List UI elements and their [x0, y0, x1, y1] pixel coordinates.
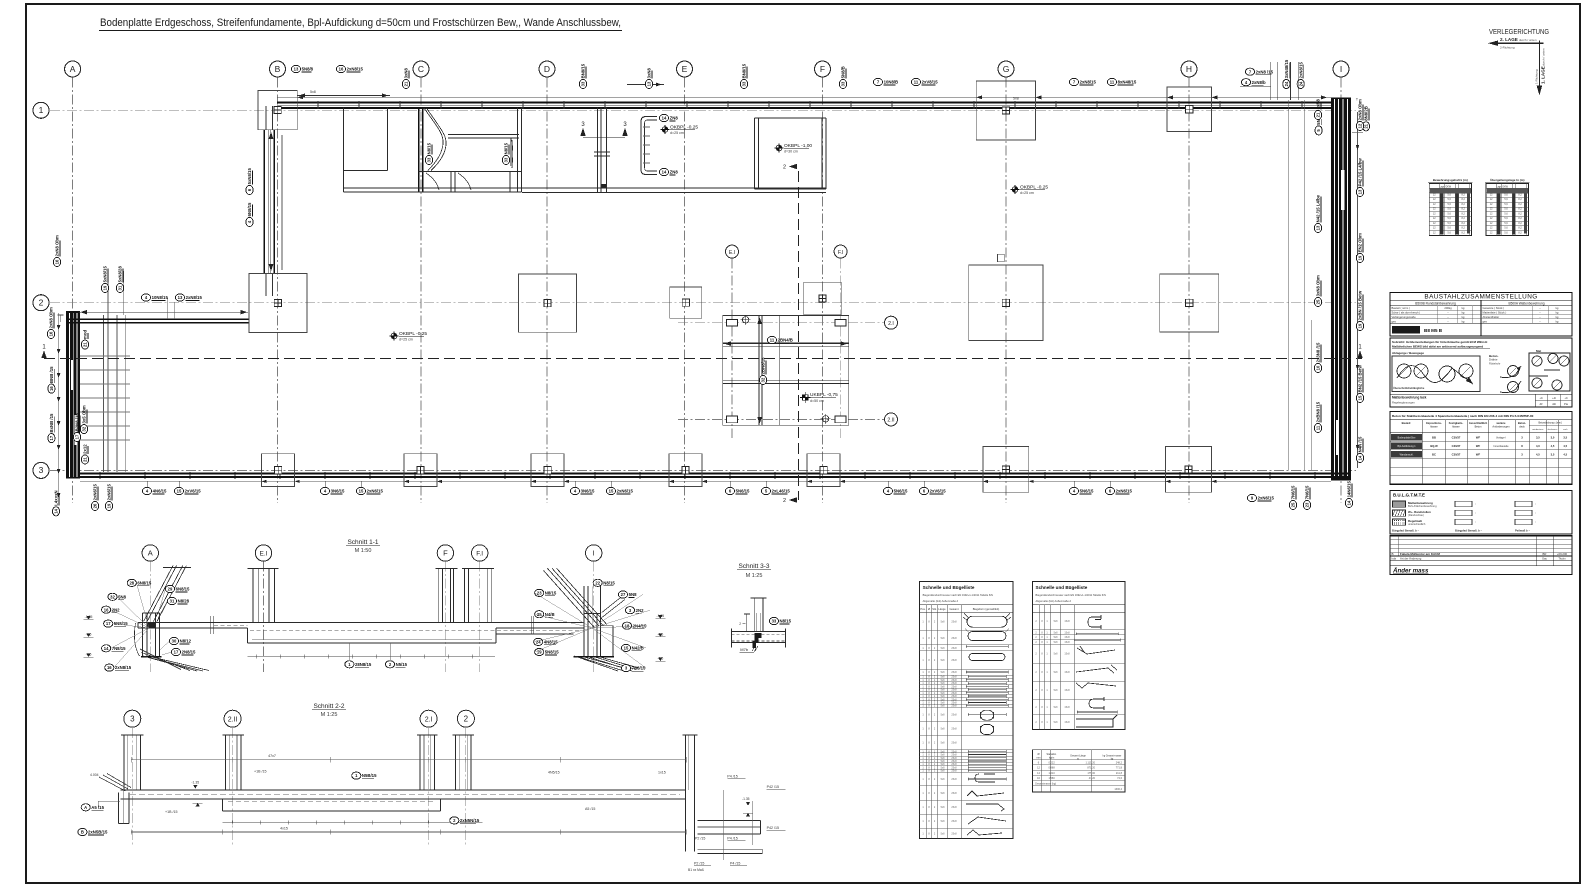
svg-text:31: 31	[118, 285, 123, 290]
svg-text:23: 23	[1305, 502, 1310, 507]
svg-text:Bauteil ( norm ): Bauteil ( norm )	[1392, 306, 1410, 310]
svg-text:+1B /15: +1B /15	[165, 810, 178, 814]
svg-text:UKBPL -0,75: UKBPL -0,75	[810, 392, 838, 398]
svg-text:unterschiedlich: unterschiedlich	[1408, 522, 1426, 526]
svg-text::: :	[1475, 511, 1476, 515]
svg-text:Ø: Ø	[1037, 752, 1039, 756]
svg-text:3,0: 3,0	[1551, 435, 1555, 439]
svg-text:2xL46/15: 2xL46/15	[772, 489, 791, 494]
svg-text:25: 25	[1316, 299, 1321, 304]
svg-text:2-Richtung: 2-Richtung	[1500, 45, 1515, 49]
svg-text:OKBPL -0,25: OKBPL -0,25	[1020, 184, 1048, 190]
svg-text:3,5: 3,5	[1563, 435, 1567, 439]
svg-text:2.I: 2.I	[888, 321, 894, 327]
svg-text:2BN8/15: 2BN8/15	[761, 357, 766, 375]
svg-text:Lage OKW: Lage OKW	[1439, 185, 1451, 188]
svg-text:15x8: 15x8	[1064, 641, 1070, 644]
svg-text:3: 3	[39, 465, 44, 475]
svg-text:durch / unten: durch / unten	[1519, 38, 1537, 42]
svg-text:kg/m: kg/m	[1049, 757, 1054, 760]
svg-text:Ausschließlich: Ausschließlich	[1469, 421, 1488, 425]
svg-text:5x8: 5x8	[941, 671, 946, 674]
svg-text:1306,4: 1306,4	[1114, 788, 1122, 791]
svg-text:25x8: 25x8	[951, 621, 957, 624]
svg-text:Bpl-Aufdickung 1: Bpl-Aufdickung 1	[1397, 445, 1416, 448]
svg-text:mm: mm	[1037, 757, 1041, 760]
svg-text:2N2: 2N2	[636, 608, 644, 613]
svg-text:Mattenbewehrung lack: Mattenbewehrung lack	[1392, 396, 1427, 400]
svg-text:14: 14	[104, 646, 109, 651]
svg-text:Bürgpfad Bemaß. b ~: Bürgpfad Bemaß. b ~	[1455, 528, 1483, 532]
svg-text:Beton-: Beton-	[1518, 421, 1526, 425]
svg-text:21: 21	[83, 342, 88, 347]
svg-text:kg: kg	[1462, 319, 1465, 323]
svg-text:BB: BB	[1432, 435, 1436, 439]
svg-text:BLS-/Flächenbewehrung: BLS-/Flächenbewehrung	[1408, 504, 1437, 508]
svg-text:14: 14	[54, 508, 59, 513]
svg-text:M 1:50: M 1:50	[355, 548, 372, 554]
svg-text:2xV6/15: 2xV6/15	[185, 489, 202, 494]
svg-text:25x8: 25x8	[951, 671, 957, 674]
svg-text:A: A	[148, 549, 153, 558]
svg-text:15: 15	[359, 489, 364, 494]
svg-text:5x8: 5x8	[941, 832, 946, 835]
svg-text:17: 17	[174, 650, 179, 655]
svg-text:2.II: 2.II	[887, 418, 894, 424]
svg-text:I: I	[1340, 64, 1342, 74]
svg-text:17: 17	[49, 435, 54, 440]
svg-text:13: 13	[1316, 225, 1321, 230]
svg-text:6N8/15: 6N8/15	[247, 202, 252, 216]
svg-text:Innenbauteile: Innenbauteile	[1493, 445, 1509, 448]
svg-text:5x8: 5x8	[1054, 653, 1059, 656]
svg-text:25x8: 25x8	[951, 770, 957, 773]
svg-text:klasse: klasse	[1452, 424, 1460, 428]
svg-text:P2 /15: P2 /15	[695, 836, 705, 840]
svg-text:25x8: 25x8	[951, 742, 957, 745]
svg-text:BN2 /15 Betw: BN2 /15 Betw	[1358, 365, 1363, 393]
svg-text:Stk.: Stk.	[932, 607, 937, 611]
svg-text:BQ,W: BQ,W	[1430, 444, 1438, 448]
svg-text:14N6/15: 14N6/15	[1347, 481, 1352, 498]
svg-text:Beton: Beton	[1475, 424, 1482, 428]
svg-text:13: 13	[647, 81, 652, 86]
svg-text:0,888: 0,888	[1048, 767, 1055, 770]
svg-text:kg: kg	[1556, 311, 1559, 315]
svg-text:d=30 cm: d=30 cm	[784, 150, 798, 154]
svg-text:OKBPL -1,00: OKBPL -1,00	[784, 143, 812, 149]
svg-text:7N6/15: 7N6/15	[1305, 485, 1310, 499]
svg-text::: :	[1535, 511, 1536, 515]
svg-text:32: 32	[761, 377, 766, 382]
svg-text:+1B /15: +1B /15	[254, 770, 267, 774]
svg-text:4,5: 4,5	[1536, 453, 1540, 457]
svg-text:2xN8/b: 2xN8/b	[1252, 80, 1266, 85]
svg-text:10N8/B: 10N8/B	[884, 80, 899, 85]
svg-text:2xN8/15: 2xN8/15	[1298, 62, 1303, 79]
svg-text:Biegeform (gemalt/fett): Biegeform (gemalt/fett)	[973, 607, 1000, 611]
svg-text:M7b: M7b	[740, 647, 749, 652]
svg-text:16: 16	[49, 331, 54, 336]
svg-text:2: 2	[739, 622, 741, 626]
svg-text:5N8/8: 5N8/8	[302, 67, 314, 72]
svg-text:P42 /15 L4/bw: P42 /15 L4/bw	[1358, 158, 1363, 187]
svg-text:2xBN /15 Betw: 2xBN /15 Betw	[1358, 290, 1363, 320]
svg-text:Wandanschl.: Wandanschl.	[1400, 454, 1414, 457]
svg-text:2xV6/15: 2xV6/15	[930, 489, 947, 494]
svg-text:F: F	[443, 549, 448, 558]
svg-text:3xN8: 3xN8	[647, 68, 652, 79]
svg-text:P42 /15: P42 /15	[767, 826, 779, 830]
svg-text:24: 24	[1284, 81, 1289, 86]
svg-text:3N6/15: 3N6/15	[331, 489, 345, 494]
svg-text:N8/15: N8/15	[545, 591, 557, 596]
svg-text:16: 16	[104, 607, 109, 612]
svg-text:29: 29	[168, 587, 173, 592]
svg-text:kg: kg	[1462, 311, 1465, 315]
svg-text:8N8/2B: 8N8/2B	[1364, 106, 1369, 121]
svg-text:durch / unten: durch / unten	[1542, 48, 1546, 66]
svg-text:5N8/15: 5N8/15	[545, 650, 559, 655]
svg-text:1: 1	[39, 105, 44, 115]
svg-text:Übergehungslage In (m): Übergehungslage In (m)	[1490, 177, 1524, 182]
svg-text:C: C	[418, 64, 424, 74]
svg-text:5N8/B: 5N8/B	[841, 66, 846, 78]
svg-text:2xN5B/15: 2xN5B/15	[88, 830, 108, 835]
svg-text:14: 14	[662, 116, 667, 121]
svg-text:5xN8/15: 5xN8/15	[247, 168, 252, 185]
svg-text:5x8: 5x8	[1054, 721, 1059, 724]
svg-text:EN2 Obm: EN2 Obm	[1358, 233, 1363, 253]
svg-text:0,222: 0,222	[1048, 761, 1055, 764]
svg-text::: :	[1535, 520, 1536, 524]
svg-text:5N6/15: 5N6/15	[736, 489, 750, 494]
svg-text:15x8: 15x8	[1064, 689, 1070, 692]
svg-text:1x15: 1x15	[658, 771, 666, 775]
svg-text:deck: deck	[1519, 424, 1525, 428]
svg-text:(Randverbau): (Randverbau)	[1408, 513, 1424, 517]
svg-text:mod: mod	[83, 330, 88, 339]
svg-text:Änder mass: Änder mass	[1392, 568, 1429, 575]
svg-text:WF: WF	[1476, 444, 1481, 448]
svg-text:2xN8/15: 2xN8/15	[186, 295, 203, 300]
svg-text:Betondeckung c [mm]: Betondeckung c [mm]	[1538, 421, 1561, 424]
svg-text:5x8: 5x8	[941, 713, 946, 716]
svg-text:19: 19	[537, 650, 542, 655]
svg-text:P2 /15: P2 /15	[694, 862, 704, 866]
svg-text:33: 33	[742, 81, 747, 86]
svg-text:F: F	[820, 64, 825, 74]
svg-text:2. LAGE: 2. LAGE	[1500, 37, 1518, 42]
svg-text:2.II: 2.II	[228, 716, 238, 723]
svg-text:N42 /15 L4/be: N42 /15 L4/be	[1316, 194, 1321, 222]
svg-text::: :	[1475, 520, 1476, 524]
svg-text:16: 16	[107, 665, 112, 670]
svg-text:5x8: 5x8	[310, 90, 316, 94]
svg-text:15x8: 15x8	[1064, 636, 1070, 639]
svg-text:Abstandhalter: Abstandhalter	[1483, 315, 1500, 319]
svg-text:5x8: 5x8	[941, 728, 946, 731]
svg-text:5N6/15: 5N6/15	[1080, 489, 1094, 494]
svg-text:N8/15: N8/15	[780, 619, 792, 624]
svg-text:WF: WF	[1476, 453, 1481, 457]
svg-text:175,00: 175,00	[1087, 772, 1095, 775]
svg-text:mindestens: mindestens	[1532, 428, 1544, 431]
svg-text:klasse: klasse	[1430, 424, 1438, 428]
svg-text:N5B/15: N5B/15	[362, 773, 377, 778]
svg-text:25: 25	[1291, 502, 1296, 507]
svg-text:1. LAGE: 1. LAGE	[1541, 66, 1546, 84]
svg-text:2xN6/15: 2xN6/15	[367, 489, 384, 494]
svg-text:Schar ( als dorn-besch ): Schar ( als dorn-besch )	[1392, 311, 1421, 315]
svg-text:5x8: 5x8	[1054, 689, 1059, 692]
svg-text:15: 15	[177, 489, 182, 494]
svg-text:13: 13	[178, 295, 183, 300]
svg-text:A: A	[84, 805, 87, 810]
svg-text:2x12: 2x12	[83, 444, 88, 454]
svg-text::: :	[1475, 502, 1476, 506]
svg-text:Tkulm: Tkulm	[1558, 557, 1566, 561]
svg-text:4N8/15: 4N8/15	[544, 640, 558, 645]
svg-text:5N8/15: 5N8/15	[114, 621, 128, 626]
svg-text:15x8: 15x8	[1064, 706, 1070, 709]
svg-text:25: 25	[537, 612, 542, 617]
svg-text:11: 11	[1110, 80, 1115, 85]
svg-text:M 1:25: M 1:25	[321, 712, 338, 718]
svg-text:G: G	[1003, 64, 1010, 74]
svg-text:18: 18	[625, 623, 630, 628]
svg-text:Bodenplatte/Stre: Bodenplatte/Stre	[1398, 436, 1416, 439]
svg-text:2: 2	[464, 714, 469, 723]
svg-text:5xN8/15: 5xN8/15	[103, 266, 108, 283]
svg-text:Abgemalte (fett) Außenmaße d: Abgemalte (fett) Außenmaße d	[1036, 599, 1072, 603]
svg-text:1,210: 1,210	[1048, 772, 1055, 775]
svg-text:6N8/15: 6N8/15	[137, 581, 151, 586]
svg-text:15x8: 15x8	[1064, 631, 1070, 634]
svg-text:B500B Rundstahlbewehrung: B500B Rundstahlbewehrung	[1415, 301, 1456, 305]
svg-text::: :	[1535, 502, 1536, 506]
svg-text:5x8: 5x8	[941, 637, 946, 640]
svg-text:Festigkeits-: Festigkeits-	[1449, 421, 1464, 425]
svg-text:1.115,20: 1.115,20	[1085, 761, 1095, 764]
svg-text:Mattenliste ( Stück ): Mattenliste ( Stück )	[1483, 311, 1507, 315]
svg-text:Sobricht: Größenverteilungen f: Sobricht: Größenverteilungen für Unterbr…	[1392, 340, 1487, 344]
svg-text:Regelergänzungen: Regelergänzungen	[1392, 401, 1415, 405]
svg-text:26: 26	[93, 503, 98, 508]
svg-text:N8/15: N8/15	[504, 142, 509, 154]
svg-text:B8 M5 B: B8 M5 B	[1424, 328, 1443, 333]
svg-text:27: 27	[621, 592, 626, 597]
svg-text:15: 15	[624, 646, 629, 651]
svg-text:19: 19	[103, 285, 108, 290]
svg-text:5x8: 5x8	[941, 806, 946, 809]
svg-text:3xN48/15: 3xN48/15	[1284, 59, 1289, 78]
svg-text:15x8: 15x8	[1064, 620, 1070, 623]
svg-text:21: 21	[1316, 112, 1321, 117]
svg-text:C30/37: C30/37	[1452, 444, 1461, 448]
svg-text:+09.200: +09.200	[1557, 552, 1568, 556]
svg-text:kg: kg	[1556, 306, 1559, 310]
svg-text:25x8: 25x8	[951, 659, 957, 662]
svg-text:2xN8 Obm: 2xN8 Obm	[1358, 99, 1363, 120]
svg-text:Biegerollendurchmesser nach EN: Biegerollendurchmesser nach EN 1992+1-1/…	[923, 593, 993, 597]
svg-text:11: 11	[914, 80, 919, 85]
svg-text:11: 11	[1316, 425, 1321, 430]
svg-text:-1.35: -1.35	[191, 781, 199, 785]
svg-text:25x8: 25x8	[951, 637, 957, 640]
svg-text:F.I: F.I	[476, 551, 483, 558]
svg-text:+di: +di	[1552, 396, 1556, 400]
svg-text:25x8: 25x8	[951, 792, 957, 795]
svg-text:dif: dif	[1540, 402, 1543, 406]
svg-text:deckmass: deckmass	[1548, 429, 1559, 431]
svg-text:2xN8/15: 2xN8/15	[1080, 80, 1097, 85]
svg-text:B: B	[81, 830, 84, 835]
svg-text:3,5: 3,5	[1551, 453, 1555, 457]
svg-text:24: 24	[1298, 81, 1303, 86]
svg-text:5N6/15: 5N6/15	[894, 489, 908, 494]
svg-text:kg: kg	[1556, 319, 1559, 323]
svg-text:4,0: 4,0	[1536, 444, 1540, 448]
svg-text:15: 15	[1358, 395, 1363, 400]
svg-text:871,20: 871,20	[1087, 767, 1095, 770]
svg-text:Anforderungen: Anforderungen	[1492, 424, 1510, 428]
svg-text:31: 31	[170, 599, 175, 604]
svg-text:5x8: 5x8	[941, 742, 946, 745]
svg-text:Gesamt: Gesamt	[949, 607, 958, 611]
svg-text:B2N8 /15: B2N8 /15	[75, 413, 80, 432]
svg-text:21: 21	[1364, 123, 1369, 128]
svg-text:2xN5N/15: 2xN5N/15	[460, 818, 480, 823]
svg-text:E.I: E.I	[260, 551, 268, 558]
svg-text:33: 33	[504, 157, 509, 162]
svg-text:BN8/15: BN8/15	[581, 63, 586, 78]
svg-text:4N6/15: 4N6/15	[153, 489, 167, 494]
svg-text:Bürgpfad Bemaß. b ~: Bürgpfad Bemaß. b ~	[1392, 528, 1420, 532]
svg-text:N5/15: N5/15	[396, 662, 408, 667]
svg-text:2xN6/15: 2xN6/15	[617, 489, 634, 494]
svg-text:N4N /15: N4N /15	[1358, 436, 1363, 452]
svg-text:25x8: 25x8	[951, 705, 957, 708]
svg-text:H: H	[1186, 64, 1192, 74]
svg-text:11: 11	[770, 338, 775, 343]
svg-text:33: 33	[427, 157, 432, 162]
svg-text:Schnitt 1-1: Schnitt 1-1	[347, 539, 378, 546]
svg-text:m: m	[1077, 757, 1079, 760]
svg-text:16: 16	[55, 259, 60, 264]
svg-text:2BN4/B: 2BN4/B	[778, 338, 793, 343]
svg-text:2x3N8 /15: 2x3N8 /15	[1316, 342, 1321, 362]
svg-text:E.I: E.I	[729, 250, 735, 256]
svg-text:4,5: 4,5	[1551, 444, 1555, 448]
svg-text:Maßähnlichen BEWS bild abfai a: Maßähnlichen BEWS bild abfai am anlässen…	[1392, 345, 1483, 349]
svg-text:5x8: 5x8	[941, 778, 946, 781]
svg-text:33: 33	[772, 619, 777, 624]
svg-text:15: 15	[609, 489, 614, 494]
svg-text:28: 28	[129, 581, 134, 586]
svg-text:weitere: weitere	[1497, 421, 1506, 425]
svg-text:2xN6/15: 2xN6/15	[1258, 496, 1275, 501]
svg-text:32: 32	[82, 426, 87, 431]
svg-text:Abgemalte (fett) Außenmaße d: Abgemalte (fett) Außenmaße d	[923, 599, 959, 603]
svg-text:M 1:25: M 1:25	[746, 573, 763, 579]
svg-text:Art der Änderung: Art der Änderung	[1400, 557, 1422, 561]
svg-text:OKBPL -0,25: OKBPL -0,25	[399, 331, 427, 337]
svg-text:16: 16	[339, 67, 344, 72]
svg-text:P4 /15: P4 /15	[727, 836, 737, 840]
svg-text:5x8: 5x8	[1054, 706, 1059, 709]
svg-text:6N8/15: 6N8/15	[176, 587, 190, 592]
svg-text:2xN6/15: 2xN6/15	[93, 484, 98, 501]
svg-text:14: 14	[1347, 500, 1352, 505]
svg-text:22: 22	[595, 580, 600, 585]
svg-text:B500A Wattenbewehrung: B500A Wattenbewehrung	[1508, 301, 1544, 305]
svg-text:BN8/15: BN8/15	[742, 63, 747, 78]
svg-text:P4 /15: P4 /15	[730, 862, 740, 866]
svg-text:ges: ges	[1483, 320, 1488, 323]
svg-text:Bodenplatte Erdgeschoss, Strei: Bodenplatte Erdgeschoss, Streifenfundame…	[100, 17, 621, 29]
svg-text:25x8: 25x8	[951, 728, 957, 731]
svg-text:5N8: 5N8	[118, 594, 126, 599]
svg-text:2: 2	[783, 498, 786, 504]
svg-text:25x8: 25x8	[951, 820, 957, 823]
svg-text:N8/28: N8/28	[178, 599, 190, 604]
svg-text:-di: -di	[1565, 396, 1568, 400]
svg-text:Vorlage-/: Vorlage-/	[1496, 436, 1506, 439]
svg-text:Ø: Ø	[928, 607, 930, 611]
svg-text:4.004: 4.004	[90, 773, 99, 777]
svg-text:BC: BC	[1432, 453, 1436, 457]
svg-text:Bewehrungsgehalt k (m): Bewehrungsgehalt k (m)	[1433, 178, 1468, 182]
svg-text:15x8: 15x8	[1064, 653, 1070, 656]
svg-text:3,5: 3,5	[1536, 435, 1540, 439]
svg-text:d=25 cm: d=25 cm	[670, 131, 684, 135]
svg-text:Fabela Mühlentor am KAUM: Fabela Mühlentor am KAUM	[1400, 552, 1440, 556]
svg-text:Beton für Stahlbetonbauteile 4: Beton für Stahlbetonbauteile 4 Spannbeto…	[1392, 414, 1534, 418]
svg-text:Rüttelrohr: Rüttelrohr	[1489, 361, 1501, 365]
svg-text:Schnelle und Bügelliste: Schnelle und Bügelliste	[1036, 585, 1088, 590]
svg-text:2.I: 2.I	[425, 716, 433, 723]
svg-text:2: 2	[783, 165, 786, 171]
svg-text:2xN6/15: 2xN6/15	[107, 484, 112, 501]
svg-text:Expositions-: Expositions-	[1426, 421, 1442, 425]
svg-text:N8/15: N8/15	[427, 142, 432, 154]
svg-text:8xN48/15: 8xN48/15	[1118, 80, 1137, 85]
svg-text:Mat: Mat	[1536, 349, 1541, 353]
svg-text:2xBN8 /15: 2xBN8 /15	[1316, 401, 1321, 422]
svg-text:5x8: 5x8	[941, 820, 946, 823]
svg-text:Schnitt 3-3: Schnitt 3-3	[738, 563, 769, 570]
svg-text:Peilmaß b ~: Peilmaß b ~	[1515, 528, 1530, 532]
svg-text:47,20: 47,20	[1089, 777, 1096, 780]
svg-text:P42 /15: P42 /15	[767, 785, 779, 789]
svg-text:3xN8: 3xN8	[1316, 99, 1321, 110]
svg-text:5x8: 5x8	[941, 647, 946, 650]
svg-text:15x8: 15x8	[1064, 671, 1070, 674]
svg-text:N8/15: N8/15	[603, 580, 615, 585]
svg-text:4x15: 4x15	[280, 826, 288, 830]
svg-text:33: 33	[841, 81, 846, 86]
svg-text:2: 2	[39, 298, 44, 308]
svg-text:5x8: 5x8	[1013, 97, 1019, 101]
svg-text:21: 21	[83, 457, 88, 462]
svg-text:5xN8/28: 5xN8/28	[118, 266, 123, 283]
svg-text:1,580: 1,580	[1048, 777, 1055, 780]
svg-text:P4 /15: P4 /15	[727, 774, 737, 778]
svg-text:17: 17	[106, 621, 111, 626]
svg-text:5x8: 5x8	[1054, 671, 1059, 674]
svg-text:10N8/15: 10N8/15	[152, 295, 169, 300]
